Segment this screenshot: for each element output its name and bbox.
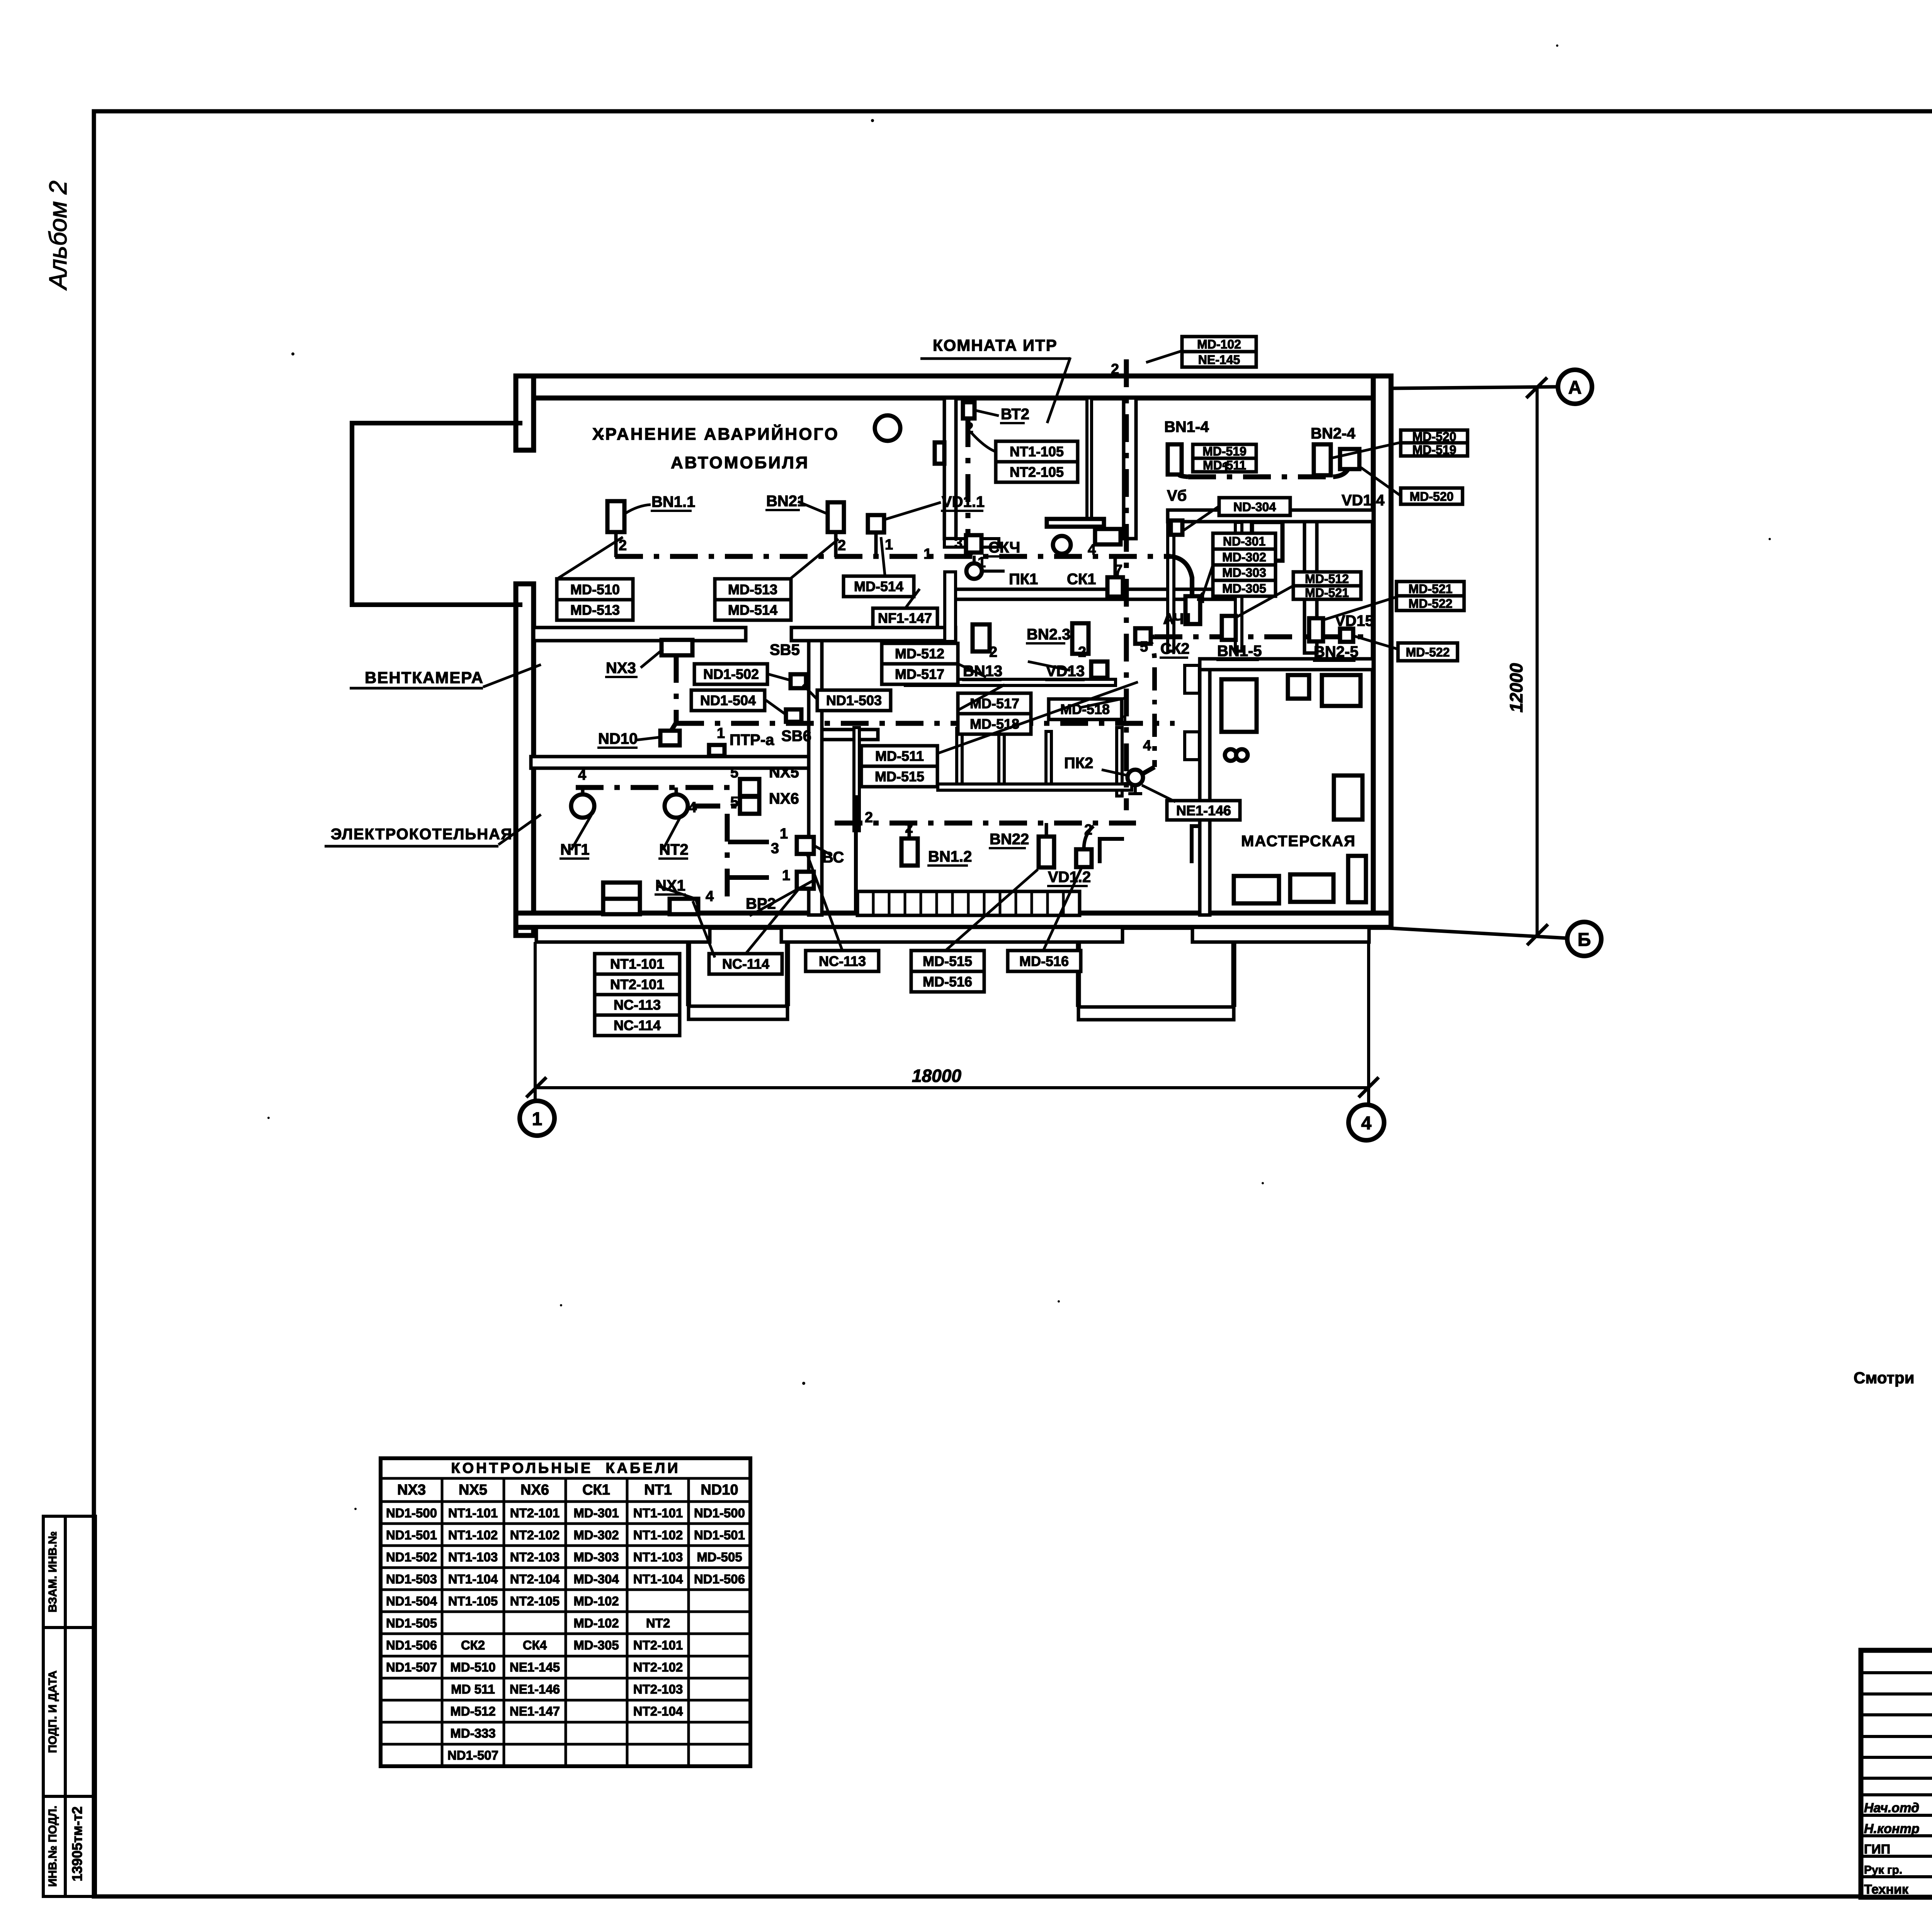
table контрольные кабели xyxy=(381,1458,750,1766)
svg-text:3: 3 xyxy=(771,840,779,857)
label box MD-512/517 xyxy=(882,643,958,684)
wall corridor segment xyxy=(953,589,1235,599)
leader lines xyxy=(558,351,1401,957)
component BN13 xyxy=(973,624,990,651)
svg-text:ВЕНТКАМЕРА: ВЕНТКАМЕРА xyxy=(365,668,484,687)
component NX1 xyxy=(670,899,698,914)
svg-text:4: 4 xyxy=(706,888,714,905)
label box MD-519 xyxy=(1193,444,1256,472)
svg-text:NC-113: NC-113 xyxy=(819,953,866,969)
svg-text:АВТОМОБИЛЯ: АВТОМОБИЛЯ xyxy=(671,453,810,472)
slab bottom middle xyxy=(781,927,1122,942)
svg-text:NE1-145: NE1-145 xyxy=(510,1660,560,1674)
svg-text:NX5: NX5 xyxy=(459,1482,487,1498)
svg-text:MD-303: MD-303 xyxy=(573,1550,619,1564)
partition ventkamera top left xyxy=(534,628,746,641)
component Vb xyxy=(1171,520,1182,535)
cable hook CK2 xyxy=(1142,637,1155,644)
cable run SB6 horizontal xyxy=(676,721,1175,726)
svg-text:BN1.1: BN1.1 xyxy=(651,493,695,510)
svg-text:1: 1 xyxy=(885,537,893,553)
svg-text:ND1-501: ND1-501 xyxy=(694,1528,745,1542)
tick A xyxy=(1526,378,1547,398)
svg-text:2: 2 xyxy=(865,810,873,826)
svg-text:18000: 18000 xyxy=(912,1066,961,1086)
component BN22 xyxy=(1039,837,1054,867)
component NX3 xyxy=(662,640,692,655)
svg-text:СК1: СК1 xyxy=(582,1482,610,1498)
label box MD-516 xyxy=(1008,951,1081,971)
svg-text:Техник: Техник xyxy=(1864,1882,1909,1897)
svg-text:MD-301: MD-301 xyxy=(573,1506,619,1520)
svg-text:NE1-146: NE1-146 xyxy=(510,1682,560,1696)
wall top outer xyxy=(516,376,1391,398)
svg-text:1: 1 xyxy=(1121,713,1129,729)
svg-text:NT1-102: NT1-102 xyxy=(448,1528,498,1542)
svg-text:VD1.4: VD1.4 xyxy=(1342,492,1385,509)
wall left lower xyxy=(516,584,534,935)
svg-text:NT2-101: NT2-101 xyxy=(510,1506,560,1520)
svg-text:NE-145: NE-145 xyxy=(1198,353,1240,367)
label box ND-304 xyxy=(1219,498,1290,515)
cable elbow to A41 xyxy=(1171,556,1192,595)
junction PK1 xyxy=(966,563,982,579)
underlines for device labels xyxy=(560,423,1355,912)
wall room ITR left xyxy=(944,398,956,539)
svg-text:MD-102: MD-102 xyxy=(573,1594,619,1608)
wall workshop top xyxy=(1200,659,1373,670)
svg-text:Рук гр.: Рук гр. xyxy=(1864,1864,1902,1876)
component BN2.3 xyxy=(1072,623,1088,654)
svg-text:MD-522: MD-522 xyxy=(1406,645,1450,659)
wall ITR left lower extension xyxy=(945,572,956,641)
column marker 1 xyxy=(520,1101,554,1136)
svg-text:NE1-147: NE1-147 xyxy=(510,1704,560,1718)
cable run 1 main horizontal xyxy=(615,554,1171,559)
svg-text:MD-505: MD-505 xyxy=(697,1550,742,1564)
svg-text:MD-511: MD-511 xyxy=(875,748,924,764)
furniture room ITR xyxy=(1047,519,1104,527)
svg-text:MD-517: MD-517 xyxy=(970,696,1019,711)
label box ND1-502 xyxy=(694,664,767,684)
svg-text:NX3: NX3 xyxy=(606,660,636,677)
wall stub L middle room xyxy=(1100,839,1124,863)
title block outer xyxy=(1861,1650,1932,1897)
svg-text:MD-510: MD-510 xyxy=(570,582,620,597)
svg-text:ЭЛЕКТРОКОТЕЛЬНАЯ: ЭЛЕКТРОКОТЕЛЬНАЯ xyxy=(331,826,513,843)
svg-text:Нач.отд: Нач.отд xyxy=(1864,1801,1919,1815)
slab bottom left xyxy=(536,927,710,942)
svg-text:NT2: NT2 xyxy=(646,1616,670,1630)
component BN21 xyxy=(828,502,844,532)
svg-text:СК1: СК1 xyxy=(1067,571,1096,588)
wall stub workshop left upper xyxy=(1185,665,1199,693)
svg-text:BN2-5: BN2-5 xyxy=(1314,643,1359,660)
svg-text:MD-510: MD-510 xyxy=(450,1660,495,1674)
svg-text:ХРАНЕНИЕ АВАРИЙНОГО: ХРАНЕНИЕ АВАРИЙНОГО xyxy=(592,424,839,444)
svg-text:ND1-502: ND1-502 xyxy=(703,666,759,682)
wall left upper xyxy=(516,376,534,450)
svg-text:ПТР-а: ПТР-а xyxy=(730,731,774,748)
svg-text:MD-102: MD-102 xyxy=(573,1616,619,1630)
bench rack in middle room xyxy=(854,728,1132,831)
svg-text:BN2.3: BN2.3 xyxy=(1027,626,1070,643)
svg-text:СК4: СК4 xyxy=(523,1638,547,1652)
svg-text:MD-520: MD-520 xyxy=(1410,490,1454,503)
svg-text:MD-518: MD-518 xyxy=(970,716,1019,732)
svg-text:ND1-503: ND1-503 xyxy=(826,692,882,708)
cable hook BN1-4 xyxy=(1179,474,1188,477)
component BN2-4 xyxy=(1314,444,1331,475)
label box MD-520/519 xyxy=(1401,430,1468,456)
furniture workshop xyxy=(1334,776,1362,820)
svg-text:ND10: ND10 xyxy=(701,1482,738,1498)
svg-text:5: 5 xyxy=(1140,639,1148,655)
svg-text:VD1.2: VD1.2 xyxy=(1048,869,1091,886)
svg-text:Альбом 2: Альбом 2 xyxy=(44,180,72,291)
svg-text:ND1-506: ND1-506 xyxy=(694,1572,745,1586)
double circle workshop xyxy=(1225,749,1236,761)
svg-text:MD-512: MD-512 xyxy=(450,1704,495,1718)
component BN1.2 xyxy=(901,838,918,866)
wall stub L workshop entry xyxy=(1192,826,1201,863)
label box MD-102 xyxy=(1182,337,1256,367)
room name Венткамера xyxy=(350,665,541,688)
wall top-right room bottom xyxy=(1168,510,1373,522)
svg-text:ND-301: ND-301 xyxy=(1223,534,1265,548)
label box MD-517/518 xyxy=(958,693,1031,734)
dimension leader to column marker Б xyxy=(1376,927,1567,938)
label box NE1-146 xyxy=(1167,801,1240,820)
svg-text:SB5: SB5 xyxy=(770,641,800,658)
component BN1-4 xyxy=(1168,444,1182,474)
tick Б xyxy=(1527,924,1548,945)
svg-text:NT2-104: NT2-104 xyxy=(510,1572,560,1586)
svg-text:NX3: NX3 xyxy=(397,1482,426,1498)
svg-text:MD-512: MD-512 xyxy=(1305,572,1349,586)
svg-text:7: 7 xyxy=(1114,562,1122,578)
component VD1.2 xyxy=(1076,849,1092,867)
svg-text:MD-521: MD-521 xyxy=(1408,582,1452,596)
label box MD-510 xyxy=(557,579,633,620)
svg-text:ND1-500: ND1-500 xyxy=(386,1506,437,1520)
pump NT1 xyxy=(571,794,594,818)
component ND10 xyxy=(660,731,680,745)
svg-text:2: 2 xyxy=(1111,361,1119,378)
PK1 stem xyxy=(974,556,1005,571)
component PTR-a xyxy=(709,745,724,756)
component BN2-5 xyxy=(1309,618,1323,641)
component VD1.4 xyxy=(1340,449,1359,469)
svg-text:1: 1 xyxy=(532,1109,543,1129)
svg-text:NT2-102: NT2-102 xyxy=(510,1528,560,1542)
wall vertical right-middle xyxy=(1304,522,1317,653)
svg-text:BN13: BN13 xyxy=(963,663,1002,680)
radiator strip xyxy=(856,795,1080,915)
wall stub right of center wall xyxy=(822,730,878,740)
slab bottom right xyxy=(1192,927,1369,942)
svg-text:MD-521: MD-521 xyxy=(1305,586,1349,600)
svg-text:12000: 12000 xyxy=(1506,663,1526,713)
label box ND1-504 xyxy=(691,690,765,711)
svg-text:Vб: Vб xyxy=(1167,487,1187,504)
svg-text:MD 511: MD 511 xyxy=(451,1682,495,1696)
svg-text:ND1-504: ND1-504 xyxy=(386,1594,437,1608)
scan noise dots xyxy=(267,44,1932,1567)
svg-text:BN1-4: BN1-4 xyxy=(1164,418,1209,435)
svg-text:4: 4 xyxy=(1143,738,1151,754)
svg-text:MD-513: MD-513 xyxy=(728,582,777,597)
component A41 xyxy=(1185,596,1200,624)
component BN1-5 xyxy=(1222,616,1236,640)
component BC xyxy=(797,837,814,854)
svg-text:MD-305: MD-305 xyxy=(573,1638,619,1652)
partition ventkamera bottom xyxy=(531,757,809,768)
svg-text:4: 4 xyxy=(1361,1113,1372,1134)
svg-text:1: 1 xyxy=(717,725,725,742)
svg-text:MD-513: MD-513 xyxy=(570,602,620,618)
cable stub BP2 xyxy=(728,875,769,880)
svg-text:СК2: СК2 xyxy=(461,1638,485,1652)
svg-text:NX6: NX6 xyxy=(769,790,799,807)
svg-text:BN1.2: BN1.2 xyxy=(928,848,972,865)
svg-text:ND-304: ND-304 xyxy=(1233,500,1276,514)
svg-text:АЧ1: АЧ1 xyxy=(1163,611,1192,628)
component SB6 xyxy=(786,709,801,722)
svg-text:2: 2 xyxy=(989,644,997,660)
svg-text:СКЧ: СКЧ xyxy=(988,539,1020,556)
wall workshop left xyxy=(1200,670,1210,915)
component VD15 xyxy=(1340,629,1353,642)
svg-text:MD-102: MD-102 xyxy=(1197,337,1241,351)
svg-text:ИНВ.№ ПОДЛ.: ИНВ.№ ПОДЛ. xyxy=(46,1806,59,1887)
svg-text:MD-512: MD-512 xyxy=(895,646,944,662)
svg-text:MD-517: MD-517 xyxy=(895,666,944,682)
room name Электрокотельная xyxy=(325,815,541,846)
svg-text:MD-515: MD-515 xyxy=(875,769,924,784)
svg-text:МАСТЕРСКАЯ: МАСТЕРСКАЯ xyxy=(1241,833,1356,850)
svg-text:3: 3 xyxy=(954,535,963,551)
svg-text:5: 5 xyxy=(730,765,738,781)
svg-text:NT1-101: NT1-101 xyxy=(610,956,664,972)
wall right xyxy=(1373,376,1391,927)
svg-text:ND1-506: ND1-506 xyxy=(386,1638,437,1652)
svg-text:КОМНАТА ИТР: КОМНАТА ИТР xyxy=(933,336,1058,354)
svg-text:1: 1 xyxy=(923,546,932,562)
svg-text:4: 4 xyxy=(689,799,697,816)
svg-text:1: 1 xyxy=(780,826,788,842)
svg-text:NT1-103: NT1-103 xyxy=(633,1550,683,1564)
svg-text:ND1-502: ND1-502 xyxy=(386,1550,437,1564)
svg-text:NT2-101: NT2-101 xyxy=(610,976,664,992)
svg-text:NT2-103: NT2-103 xyxy=(633,1682,683,1696)
component CK4 xyxy=(966,535,981,553)
svg-text:NE1-146: NE1-146 xyxy=(1176,803,1231,818)
svg-text:4: 4 xyxy=(1088,542,1096,558)
wall vertical corridor left xyxy=(1168,522,1174,651)
svg-text:BN1-5: BN1-5 xyxy=(1217,643,1262,660)
svg-text:ND1-501: ND1-501 xyxy=(386,1528,437,1542)
svg-text:NF1-147: NF1-147 xyxy=(878,610,932,626)
svg-text:NT2-103: NT2-103 xyxy=(510,1550,560,1564)
dimension leader to column marker A xyxy=(1391,387,1558,388)
label box MD-512/521 xyxy=(1293,572,1361,599)
partition vertical center xyxy=(809,641,822,915)
svg-text:NC-114: NC-114 xyxy=(614,1017,661,1033)
component VD1.1 xyxy=(868,515,884,532)
cable run BN1-5 xyxy=(1155,634,1370,639)
svg-text:ND1-503: ND1-503 xyxy=(386,1572,437,1586)
label box MD-520 xyxy=(1401,488,1463,504)
wall middle room top xyxy=(905,679,1116,685)
svg-text:ND10: ND10 xyxy=(598,730,638,747)
component stubs to cable xyxy=(583,532,1115,849)
svg-text:MD-522: MD-522 xyxy=(1408,597,1452,611)
svg-text:MD-516: MD-516 xyxy=(923,974,972,990)
svg-text:NT1-104: NT1-104 xyxy=(633,1572,683,1586)
svg-text:VD1.1: VD1.1 xyxy=(942,493,985,510)
svg-text:NT1: NT1 xyxy=(644,1482,672,1498)
svg-text:NT2-105: NT2-105 xyxy=(1010,464,1064,480)
svg-text:BN22: BN22 xyxy=(990,831,1029,848)
small numerals on cable runs xyxy=(578,361,1230,905)
label box NT1-101 xyxy=(595,954,680,1036)
note see together with cable journal xyxy=(1854,1369,1932,1419)
svg-text:СК2: СК2 xyxy=(1160,640,1190,657)
svg-text:BN2-4: BN2-4 xyxy=(1311,425,1355,442)
wall vertical corridor A41 xyxy=(1235,522,1242,651)
component CK2 xyxy=(1135,628,1151,644)
svg-text:SB6: SB6 xyxy=(781,728,811,745)
svg-text:MD-305: MD-305 xyxy=(1222,582,1266,595)
svg-text:NC-113: NC-113 xyxy=(614,997,661,1013)
label box ND1-503 xyxy=(817,690,891,711)
room name Комната ИТР xyxy=(920,336,1070,423)
svg-text:ПК2: ПК2 xyxy=(1064,755,1093,772)
vertical dimension line 12000 xyxy=(1536,387,1539,938)
svg-text:MD-514: MD-514 xyxy=(854,578,903,594)
label box NC-113 xyxy=(806,951,879,971)
cable hook BN2-4 xyxy=(1316,466,1321,477)
component CK1 xyxy=(1107,577,1123,597)
svg-text:ND1-507: ND1-507 xyxy=(447,1748,498,1762)
extension line column 1 xyxy=(534,942,537,1101)
svg-text:MD-519: MD-519 xyxy=(1412,443,1456,457)
title block signature grid xyxy=(1861,1650,1932,1897)
porch right xyxy=(1078,942,1234,1007)
component VD13 xyxy=(1091,662,1107,678)
wall stub workshop left lower xyxy=(1185,732,1199,760)
svg-text:NX6: NX6 xyxy=(520,1482,549,1498)
wall room ITR right xyxy=(1087,398,1092,519)
svg-text:NT2-104: NT2-104 xyxy=(633,1704,683,1718)
label box NT1-105 xyxy=(996,441,1078,482)
svg-text:MD-515: MD-515 xyxy=(923,953,972,969)
left margin attribute column xyxy=(43,1516,95,1896)
tick 1 xyxy=(526,1077,546,1097)
cabinet electrokotelnaya xyxy=(603,883,640,899)
svg-text:ПОДП. И ДАТА: ПОДП. И ДАТА xyxy=(46,1670,59,1753)
cable link ND10 xyxy=(671,723,676,731)
svg-text:КОНТРОЛЬНЫЕ КАБЕЛИ: КОНТРОЛЬНЫЕ КАБЕЛИ xyxy=(451,1460,680,1476)
column marker Б xyxy=(1567,922,1601,956)
svg-text:NT1-105: NT1-105 xyxy=(1010,444,1064,459)
svg-text:MD-519: MD-519 xyxy=(1202,444,1247,458)
junction PK2 xyxy=(1128,770,1143,785)
svg-text:NC-114: NC-114 xyxy=(722,956,769,972)
svg-text:MD-302: MD-302 xyxy=(573,1528,619,1542)
cable run BN1-4 xyxy=(1188,474,1333,480)
cable run bottom room xyxy=(835,821,1136,826)
label box MD-514 xyxy=(844,576,914,597)
svg-text:NX5: NX5 xyxy=(769,764,799,781)
component BP2 xyxy=(797,872,814,889)
component NX5 xyxy=(740,779,759,796)
column marker 4 xyxy=(1349,1105,1384,1140)
svg-text:MD-302: MD-302 xyxy=(1222,550,1266,564)
svg-text:13905тм-т2: 13905тм-т2 xyxy=(69,1806,85,1881)
label box NC-114 xyxy=(709,954,782,974)
svg-text:MD-516: MD-516 xyxy=(1019,953,1069,969)
pump NT2 xyxy=(665,794,688,818)
component BT2 xyxy=(963,402,975,418)
svg-text:NT1-101: NT1-101 xyxy=(633,1506,683,1520)
circle storage room xyxy=(875,415,900,441)
porch left xyxy=(689,942,787,1006)
device labels xyxy=(560,406,1385,912)
cable elbow PK2 xyxy=(1134,631,1155,767)
svg-text:ND1-507: ND1-507 xyxy=(386,1660,437,1674)
extension line column 4 xyxy=(1367,942,1370,1105)
svg-text:4: 4 xyxy=(578,767,586,783)
svg-text:2: 2 xyxy=(1078,644,1086,660)
svg-text:1: 1 xyxy=(1222,459,1230,476)
svg-text:ВЗАМ. ИНВ.№: ВЗАМ. ИНВ.№ xyxy=(46,1531,59,1612)
svg-text:1: 1 xyxy=(782,867,790,884)
svg-text:NT2-105: NT2-105 xyxy=(510,1594,560,1608)
label box MD-511/515 xyxy=(861,746,937,787)
component SB5 xyxy=(791,674,806,688)
cable drop NX3 xyxy=(674,655,679,723)
label box MD-513 xyxy=(715,579,791,620)
label box NF1-147 xyxy=(873,608,937,628)
label box MD-521/522 xyxy=(1396,582,1464,611)
partition ventkamera top right xyxy=(791,628,956,641)
svg-text:ВТ2: ВТ2 xyxy=(1001,406,1029,423)
svg-text:ND1-505: ND1-505 xyxy=(386,1616,437,1630)
svg-text:NT1-104: NT1-104 xyxy=(448,1572,498,1586)
svg-text:MD-303: MD-303 xyxy=(1222,566,1266,580)
label box ND-301 xyxy=(1213,533,1276,596)
column marker A xyxy=(1558,370,1592,404)
svg-text:MD-514: MD-514 xyxy=(728,602,777,618)
svg-text:5: 5 xyxy=(730,794,738,810)
cable drop below NX6 xyxy=(725,814,730,900)
svg-text:ПК1: ПК1 xyxy=(1009,571,1038,588)
signature rows labels xyxy=(1864,1801,1920,1897)
svg-text:NT2-102: NT2-102 xyxy=(633,1660,683,1674)
label box MD-518 xyxy=(1049,699,1122,719)
svg-text:ГИП: ГИП xyxy=(1864,1842,1890,1857)
component BN1.1 xyxy=(607,501,624,532)
svg-text:2: 2 xyxy=(905,820,913,836)
cable riser 2 vertical xyxy=(1124,359,1129,810)
svg-text:NT1-105: NT1-105 xyxy=(448,1594,498,1608)
bottom dimension line 18000 xyxy=(537,1086,1369,1089)
svg-text:Смотри: Смотри xyxy=(1854,1369,1915,1387)
svg-text:ND1-504: ND1-504 xyxy=(700,692,756,708)
svg-text:ND1-500: ND1-500 xyxy=(694,1506,745,1520)
